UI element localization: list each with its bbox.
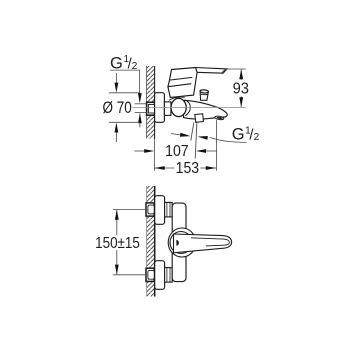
svg-text:153: 153 — [176, 159, 199, 177]
label G 1/2 (shower outlet) — [232, 125, 260, 143]
escutcheon (side view) — [155, 93, 165, 123]
cartridge dome arcs — [170, 95, 192, 98]
cartridge dome — [170, 232, 192, 254]
svg-text:Ø 70: Ø 70 — [103, 99, 132, 118]
inlet union nut (top view) — [147, 102, 155, 115]
lever handle block — [168, 68, 197, 98]
shower pipe line right — [195, 123, 197, 159]
lever handle (plan) — [174, 234, 232, 253]
extension line from spout tip down — [216, 120, 218, 171]
spout — [184, 100, 228, 119]
shower outlet nub — [195, 114, 204, 123]
dimension 93 — [222, 69, 249, 107]
extension line from wall face down — [153, 139, 155, 171]
ball joint — [171, 98, 186, 116]
shower pipe line left — [191, 123, 194, 141]
dimension 153 — [155, 159, 216, 177]
svg-text:150±15: 150±15 — [95, 235, 140, 252]
label G 1/2 (inlet) — [110, 54, 138, 72]
lever blade — [196, 68, 228, 74]
leader G1/2 inlet — [110, 70, 142, 127]
svg-text:93: 93 — [233, 80, 249, 97]
temperature indicator — [176, 240, 179, 246]
upper union nut (plan) — [165, 202, 173, 217]
lower union nut (plan) — [165, 268, 173, 283]
svg-text:107: 107 — [165, 142, 188, 160]
handle crease 2 — [168, 84, 191, 87]
upper escutcheon (plan) — [155, 196, 165, 225]
spout cap arc behind ball — [185, 100, 190, 116]
svg-text:G: G — [232, 125, 245, 143]
wall (top view, hatched) — [147, 66, 155, 139]
aerator at spout tip — [215, 116, 225, 121]
dimension Ø70 — [103, 73, 141, 142]
handle inner contour — [191, 238, 229, 246]
upper wall nut — [146, 203, 154, 216]
svg-text:G: G — [110, 54, 123, 72]
axis centerline — [133, 106, 247, 108]
handle crease 1 — [170, 77, 193, 80]
nut extension lines — [135, 103, 147, 105]
connector cylinder — [164, 102, 171, 116]
wall (bottom view, hatched) — [147, 186, 155, 297]
leader G1/2 shower — [171, 133, 247, 143]
mixer body slab — [172, 203, 186, 282]
lower wall nut — [146, 268, 154, 281]
svg-text:2: 2 — [254, 132, 260, 143]
diverter knob — [200, 90, 209, 101]
lower escutcheon (plan) — [155, 261, 165, 290]
blade tip inner line — [222, 69, 225, 72]
handle collar — [168, 228, 196, 257]
dimension 107 — [134, 142, 216, 160]
